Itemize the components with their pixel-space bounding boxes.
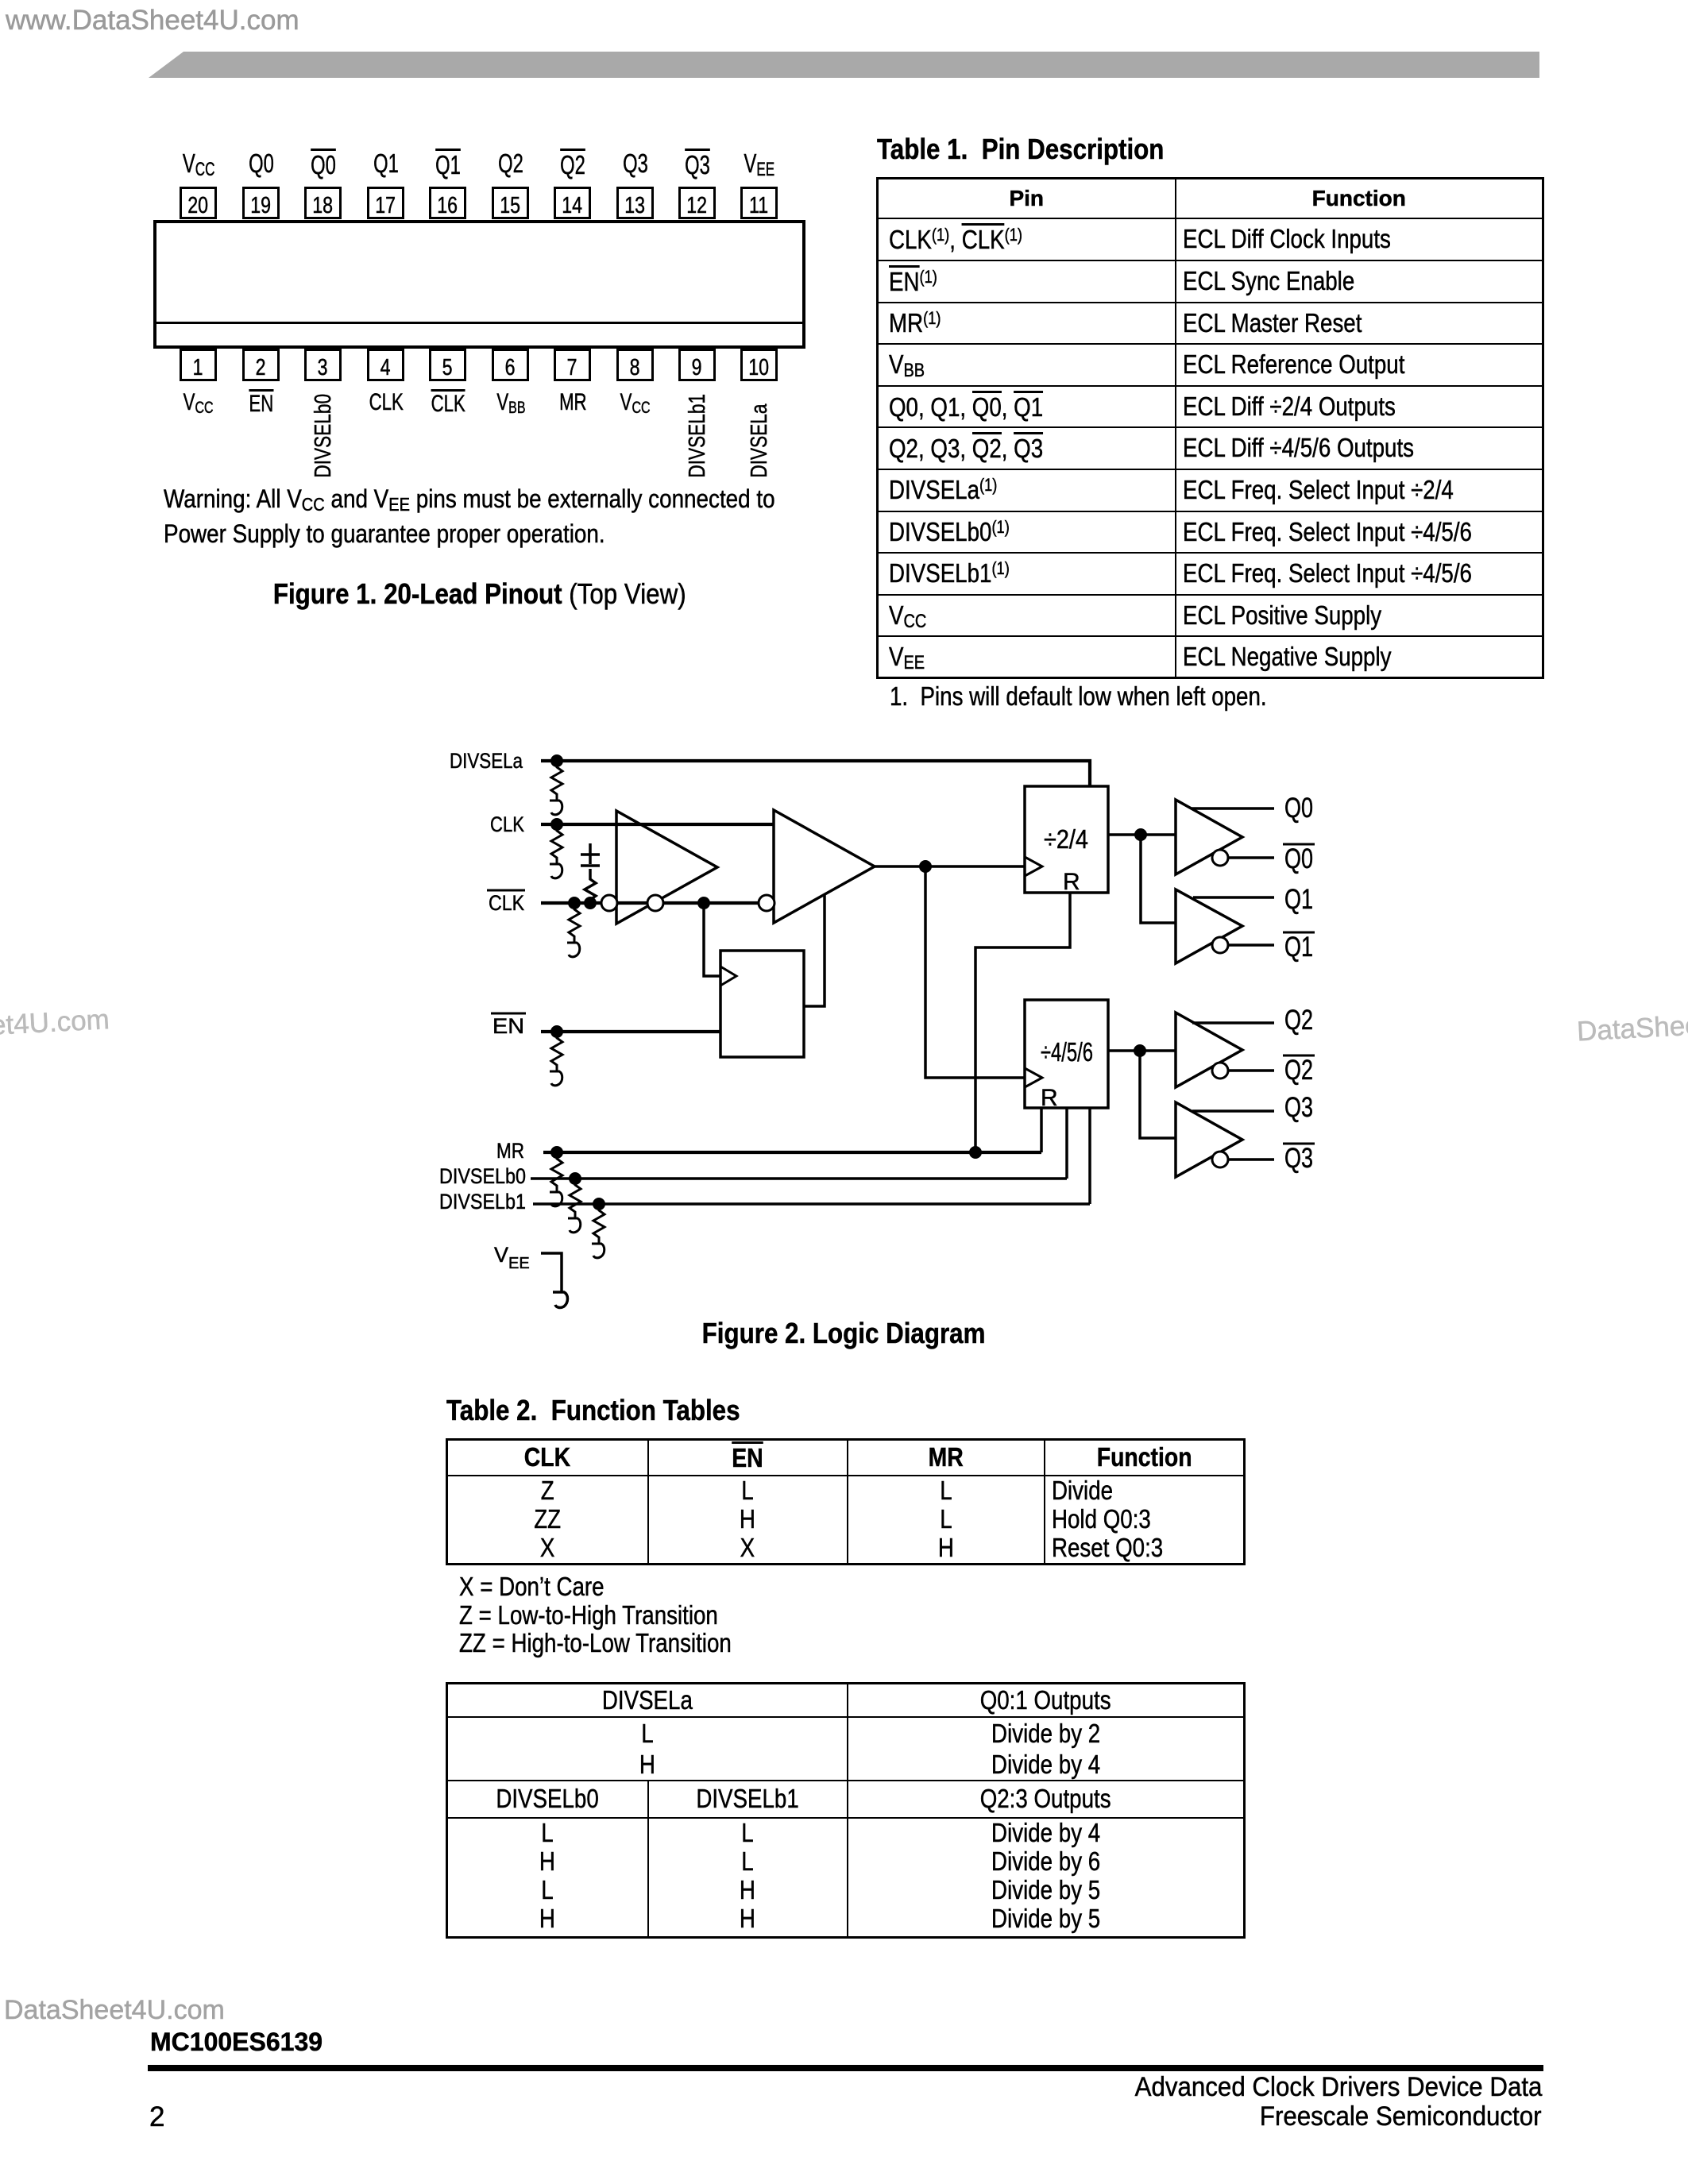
svg-text:Q2: Q2 xyxy=(1284,1005,1313,1036)
svg-text:CLK: CLK xyxy=(490,812,524,836)
svg-text:÷2/4: ÷2/4 xyxy=(1044,824,1088,854)
svg-text:MR: MR xyxy=(496,1139,524,1163)
svg-text:R: R xyxy=(1041,1085,1058,1111)
svg-text:Q3: Q3 xyxy=(1284,1143,1313,1174)
svg-text:EN: EN xyxy=(492,1014,524,1038)
svg-text:Q2: Q2 xyxy=(1284,1055,1313,1086)
svg-text:Q0: Q0 xyxy=(1284,843,1313,874)
svg-text:÷4/5/6: ÷4/5/6 xyxy=(1041,1037,1093,1067)
svg-text:Q1: Q1 xyxy=(1284,932,1313,963)
svg-text:DIVSELb0: DIVSELb0 xyxy=(439,1164,526,1188)
svg-text:R: R xyxy=(1063,869,1080,895)
svg-text:Q3: Q3 xyxy=(1284,1092,1313,1123)
svg-text:Q1: Q1 xyxy=(1284,884,1313,915)
svg-text:DIVSELa: DIVSELa xyxy=(450,749,523,773)
svg-text:VEE: VEE xyxy=(494,1243,530,1272)
svg-text:CLK: CLK xyxy=(489,891,524,915)
svg-text:Q0: Q0 xyxy=(1284,793,1313,824)
svg-text:DIVSELb1: DIVSELb1 xyxy=(439,1190,526,1214)
